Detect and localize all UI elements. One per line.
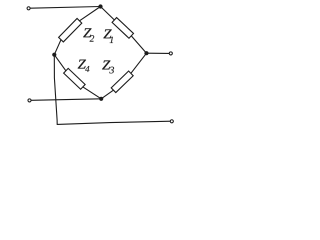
- wire Z4 arm lead lower: [83, 87, 101, 99]
- wire Z3 arm lead upper: [131, 53, 147, 73]
- wire Z4 arm lead upper: [54, 55, 66, 71]
- label Z2 - Z: [83, 28, 91, 37]
- label Z3 - sub 3: [109, 67, 114, 74]
- resistor Z4: [64, 68, 86, 89]
- label Z2 - sub 2: [90, 35, 95, 41]
- label Z4 - Z: [78, 60, 86, 69]
- wire left node down: [54, 55, 57, 125]
- resistor Z3: [111, 71, 133, 93]
- node right: [144, 51, 148, 55]
- wire Z1 arm lead lower: [131, 36, 146, 53]
- wire Z3 arm lead lower: [101, 90, 113, 99]
- label Z4 - sub 4: [85, 66, 89, 72]
- terminal bottom-right: [170, 120, 173, 123]
- wire right node to right terminal: [147, 52, 170, 54]
- wire Z2 arm lead upper: [80, 7, 101, 21]
- wire top terminal to top node: [30, 7, 100, 9]
- node top: [98, 4, 102, 8]
- node left: [52, 53, 56, 57]
- resistor Z1: [112, 18, 133, 39]
- resistor Z2: [59, 18, 82, 41]
- label Z3 - Z: [102, 61, 110, 70]
- terminal right: [169, 52, 172, 55]
- wire bottom: [57, 121, 172, 124]
- terminal left-middle: [28, 99, 31, 102]
- wire left terminal to bottom node: [31, 99, 101, 101]
- wire Z2 arm lead lower: [54, 40, 61, 55]
- terminal top-left: [27, 7, 30, 10]
- label Z1 - sub 1: [110, 37, 113, 43]
- wire Z1 arm lead upper: [101, 7, 115, 21]
- node bottom: [99, 97, 103, 101]
- label Z1 - Z: [103, 29, 111, 38]
